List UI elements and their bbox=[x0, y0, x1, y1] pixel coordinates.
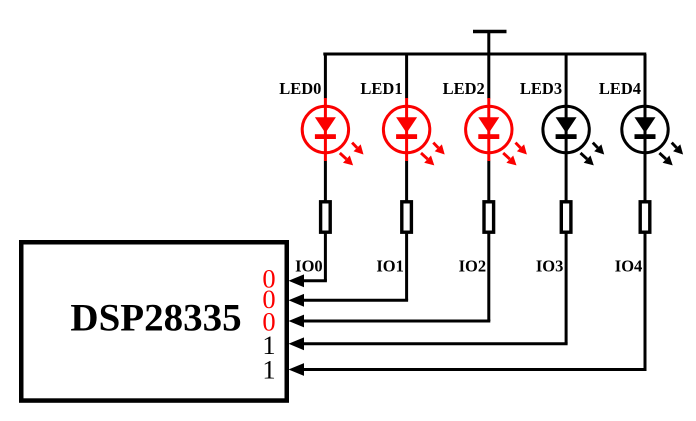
svg-text:LED3: LED3 bbox=[520, 79, 562, 98]
svg-text:IO0: IO0 bbox=[295, 257, 323, 276]
svg-text:LED1: LED1 bbox=[360, 79, 402, 98]
svg-text:LED0: LED0 bbox=[279, 79, 321, 98]
svg-text:IO3: IO3 bbox=[536, 257, 564, 276]
svg-text:LED4: LED4 bbox=[599, 79, 641, 98]
svg-text:DSP28335: DSP28335 bbox=[70, 297, 241, 340]
svg-text:IO2: IO2 bbox=[459, 257, 487, 276]
svg-text:IO1: IO1 bbox=[376, 257, 404, 276]
svg-text:LED2: LED2 bbox=[443, 79, 485, 98]
svg-text:1: 1 bbox=[262, 354, 275, 384]
svg-text:IO4: IO4 bbox=[615, 257, 643, 276]
